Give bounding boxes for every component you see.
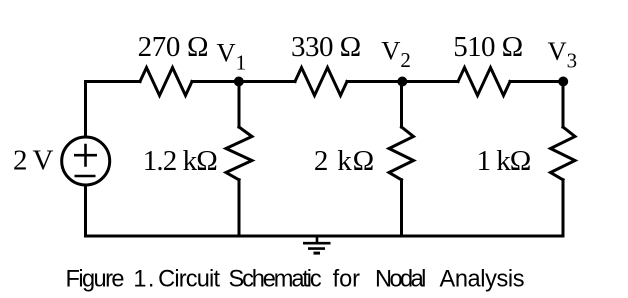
wire V3 branch upper xyxy=(562,82,565,128)
svg-text:2 V: 2 V xyxy=(13,144,53,176)
wire V1 branch lower xyxy=(238,180,241,236)
svg-text:270 Ω: 270 Ω xyxy=(138,31,209,63)
wire R3 to node V3 xyxy=(510,80,563,83)
wire V2 branch lower xyxy=(400,180,403,236)
resistor R5 2kohm xyxy=(389,127,414,180)
svg-text:Analysis: Analysis xyxy=(440,267,525,293)
node V3 junction xyxy=(558,77,568,87)
wire V3 branch lower xyxy=(562,180,565,236)
wire R1 to node V1 xyxy=(192,80,239,83)
svg-text:.: . xyxy=(148,267,155,293)
svg-text:1 kΩ: 1 kΩ xyxy=(477,145,532,177)
svg-text:330 Ω: 330 Ω xyxy=(291,31,361,63)
node V2 junction xyxy=(397,77,407,87)
resistor R3 510ohm xyxy=(458,68,510,96)
resistor R2 330ohm xyxy=(295,68,347,96)
ground xyxy=(303,236,331,255)
svg-text:for: for xyxy=(333,267,361,293)
wire source bottom to bottom rail xyxy=(84,186,87,237)
wire left rail top (source to top-left corner to R1) xyxy=(86,82,141,137)
svg-text:Nodal: Nodal xyxy=(375,267,426,293)
wire bottom rail xyxy=(86,235,564,238)
svg-text:Circuit: Circuit xyxy=(158,267,220,293)
svg-text:Schematic: Schematic xyxy=(229,267,322,293)
wire V1 branch upper xyxy=(238,82,241,128)
voltage source VS 2V xyxy=(62,137,110,185)
svg-text:Figure: Figure xyxy=(66,267,125,293)
wire node V1 to R2 xyxy=(239,80,296,83)
svg-text:2 kΩ: 2 kΩ xyxy=(314,145,374,177)
svg-text:1.2 kΩ: 1.2 kΩ xyxy=(143,145,218,177)
resistor R6 1kohm xyxy=(551,127,576,180)
svg-text:1: 1 xyxy=(133,267,146,293)
resistor R1 270ohm xyxy=(140,68,192,96)
wire R2 to node V2 xyxy=(347,80,403,83)
resistor R4 1.2kohm xyxy=(226,127,252,180)
node V1 junction xyxy=(234,77,244,87)
caption Figure 1. Circuit Schematic for Nodal Analysis xyxy=(66,267,525,293)
wire node V2 to R3 xyxy=(403,80,458,83)
svg-text:510 Ω: 510 Ω xyxy=(453,31,523,63)
wire V2 branch upper xyxy=(400,82,403,128)
